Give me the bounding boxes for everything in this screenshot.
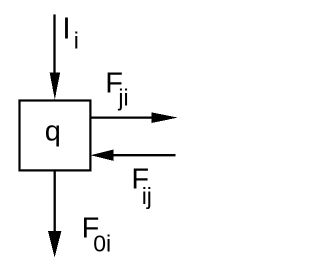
svg-text:I: I bbox=[62, 12, 70, 46]
svg-text:i: i bbox=[74, 28, 79, 54]
svg-text:q: q bbox=[45, 115, 61, 147]
svg-text:ji: ji bbox=[117, 85, 128, 111]
svg-text:0i: 0i bbox=[93, 231, 111, 257]
svg-text:ij: ij bbox=[142, 183, 152, 209]
